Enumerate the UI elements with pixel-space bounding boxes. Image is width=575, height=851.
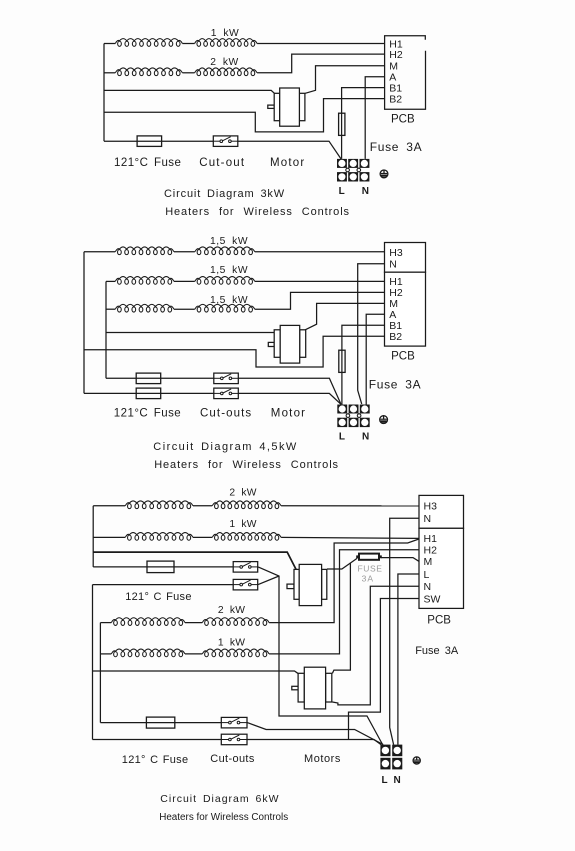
wire: 1kW between coils (d3 s1): [193, 536, 212, 538]
wire: 2kW coil to PCB pin H3 (d3): [281, 505, 419, 507]
thermal fuse 121C #1 (d2): [136, 373, 161, 384]
svg-text:1 kW: 1 kW: [211, 28, 239, 39]
wire: motor1 top-right to fuse 3A (d3): [327, 558, 357, 569]
svg-text:121° C Fuse: 121° C Fuse: [125, 591, 192, 603]
svg-text:FUSE: FUSE: [358, 564, 383, 574]
svg-text:2 kW: 2 kW: [229, 488, 256, 499]
wire: inner bus to 1kW coil (d3 s2): [100, 653, 111, 655]
wire: bus through 121C fuse to cut-out: [104, 140, 214, 142]
svg-text:H3: H3: [389, 247, 403, 259]
svg-text:Motor: Motor: [270, 157, 305, 169]
wire: cut-out1 output down and to terminal L (d3): [258, 567, 383, 745]
heater element 1kW (d3 sec1 row2 group A): [125, 533, 193, 541]
resistor/heater element 2kW (d1 row2, coil group A): [115, 68, 182, 76]
heater element 1kW (d3 sec1 row2 group B): [212, 533, 281, 541]
resistor/heater element 2kW (d1 row2, coil group B): [195, 68, 258, 76]
svg-text:L: L: [424, 569, 430, 581]
heater element 2kW (d3 sec2 row1 group A): [111, 618, 185, 626]
ground / protective earth (d1): [380, 170, 388, 178]
svg-text:1 kW: 1 kW: [229, 519, 256, 530]
wire: 1kW between coils (d3 s2): [185, 653, 202, 655]
heater element 2kW (d3 sec1 row1 group B): [212, 501, 281, 509]
svg-text:N: N: [394, 775, 401, 786]
ground / protective earth (d3): [413, 757, 420, 765]
cut-out switch (d1): [213, 136, 238, 147]
svg-text:Heaters for Wireless Controls: Heaters for Wireless Controls: [154, 459, 339, 471]
svg-text:L: L: [339, 186, 345, 197]
svg-text:1 kW: 1 kW: [218, 638, 245, 649]
wire: bus to row1 coil (d2): [84, 251, 115, 253]
wire: PCB pin A down to terminal N (d2): [366, 314, 384, 404]
cut-out switch #1 (d3 s1): [233, 562, 258, 573]
wire: bus to 1kW coil (d3 s1): [93, 536, 125, 538]
wire: inner bus to 2kW coil (d3 s2): [100, 622, 111, 624]
wire: bus through 121C fuse 2 to cut-out2 (d2): [84, 392, 215, 394]
wire: inner supply bus (d2): [105, 281, 107, 378]
wire: sec2 1kW coil up to PCB pin H2 (d3): [269, 550, 419, 654]
wire: cut-out2 to terminal L (d2): [237, 393, 341, 404]
cut-out switch #1 (d2): [214, 373, 239, 384]
svg-text:M: M: [424, 556, 433, 568]
svg-text:121° C Fuse: 121° C Fuse: [122, 754, 189, 766]
wire: inner bus through 121C fuse to cut-out1 (d3 s2): [100, 722, 221, 724]
wire: bus to 2kW coil (d3 s1): [93, 505, 125, 507]
svg-text:Circuit Diagram 6kW: Circuit Diagram 6kW: [160, 793, 279, 805]
svg-text:Circuit Diagram 3kW: Circuit Diagram 3kW: [164, 188, 285, 200]
wire: 1kW coil to PCB pin H1 (d3): [281, 537, 419, 538]
wire: PCB pin B1 down through Fuse 3A to terminal L (d2): [342, 325, 385, 404]
svg-text:PCB: PCB: [427, 615, 451, 627]
wire: sec2 2kW coil up to PCB pin H1 (d3): [269, 539, 419, 623]
resistor/heater element 1kW (d1 row1, coil group B): [195, 39, 258, 47]
svg-text:H2: H2: [389, 49, 403, 61]
wire: bus to row2 coil (d2): [106, 280, 115, 282]
thermal fuse 121C #2 (d2): [136, 388, 161, 399]
cut-out switch #1 (d3 s2): [221, 717, 247, 728]
resistor/heater element 1kW (d1 row1, coil group A): [115, 39, 182, 47]
svg-text:Motors: Motors: [304, 753, 341, 765]
wire: PCB pin N down to terminal N (d2): [358, 264, 385, 404]
wire: lower outer supply bus (d3): [92, 585, 94, 740]
svg-text:1,5 kW: 1,5 kW: [210, 265, 248, 276]
wire: bus through 121C fuse 1 to cut-out1 (d2): [106, 377, 215, 379]
wire: 2kW coil up to PCB pin H2: [257, 54, 385, 73]
heater element 2kW (d3 sec1 row1 group A): [125, 501, 193, 509]
motor M1 (d1): [268, 88, 305, 126]
svg-text:121°C Fuse: 121°C Fuse: [114, 408, 181, 420]
svg-text:Heaters for Wireless Controls: Heaters for Wireless Controls: [165, 206, 350, 218]
svg-text:Cut-out: Cut-out: [199, 157, 245, 169]
wire: row3 between coils (d2): [174, 308, 195, 310]
svg-text:1,5 kW: 1,5 kW: [210, 295, 248, 306]
svg-text:Cut-outs: Cut-outs: [200, 408, 252, 420]
wire: bus to motor1 top-left (d3): [93, 552, 296, 570]
wire: bus to row3 coil (d2): [106, 308, 115, 310]
svg-text:N: N: [389, 259, 397, 271]
svg-text:Heaters for Wireless Controls: Heaters for Wireless Controls: [159, 812, 288, 823]
wire: PCB pin B1 down through Fuse 3A to terminal L: [342, 88, 385, 159]
wire: cut-out1 to terminal L (d2): [237, 378, 341, 404]
wire: PCB pin A down to terminal N: [365, 77, 384, 159]
wire: fuse 3A output to PCB pin M (d3): [381, 558, 419, 562]
wire: 2kW between coils (d3 s1): [193, 505, 212, 507]
svg-text:B2: B2: [389, 331, 402, 343]
svg-text:3A: 3A: [362, 574, 374, 584]
wire: bus under motor up to PCB pin B2 (d2): [84, 336, 385, 367]
heater element 1,5kW (d2 row3 group A): [115, 304, 174, 312]
wire: outer supply bus (d2): [83, 252, 85, 394]
heater element 1,5kW (d2 row3 group B): [195, 304, 255, 312]
wire: cut-out to terminal L: [237, 141, 341, 159]
wire: PCB pin L down to terminal N column (d3): [398, 574, 419, 745]
heater element 2kW (d3 sec2 row1 group B): [202, 618, 269, 626]
motor M1 (d3): [287, 564, 327, 605]
svg-text:L: L: [339, 432, 345, 443]
svg-text:2 kW: 2 kW: [210, 57, 238, 68]
svg-text:H2: H2: [424, 545, 438, 557]
cut-out switch #2 (d3 s2): [221, 734, 247, 745]
wire: outer bus to motor2 top-left (d3): [93, 671, 298, 673]
motor M2 (d3): [292, 667, 332, 709]
wire: bus through 121C fuse to cut-out1 (d3 s1): [93, 566, 233, 568]
svg-text:Cut-outs: Cut-outs: [210, 753, 255, 765]
svg-text:H3: H3: [424, 501, 438, 513]
thermal fuse 121C (d3 s2): [146, 717, 174, 728]
svg-text:2 kW: 2 kW: [218, 605, 245, 616]
heater element 1,5kW (d2 row2 group A): [115, 277, 174, 285]
wire: bus under motor up to PCB pin B2: [104, 99, 385, 132]
wire: bus to motor top-left (d2): [106, 332, 274, 334]
svg-text:PCB: PCB: [391, 113, 415, 125]
wire: lower bus to cut-out2 (d3 s1): [93, 584, 233, 586]
svg-text:H1: H1: [424, 533, 438, 545]
svg-text:Circuit Diagram 4,5kW: Circuit Diagram 4,5kW: [153, 441, 297, 453]
wire: 2kW between coils (d3 s2): [185, 622, 202, 624]
wire: sec2 cut-out2 output to terminal L (d3): [247, 740, 381, 745]
thermal fuse 121C (d1): [137, 136, 162, 147]
heater element 1kW (d3 sec2 row2 group A): [111, 649, 185, 657]
svg-text:SW: SW: [424, 593, 441, 605]
wire: cut-out2 output to junction (d3 s1): [258, 576, 279, 585]
wire: sec2 cut-out1 output to terminal L (d3): [247, 723, 383, 745]
svg-text:B2: B2: [389, 93, 402, 105]
svg-text:PCB: PCB: [391, 351, 415, 363]
wire: left supply bus (d1): [103, 44, 105, 142]
terminal block L/N (d2): [337, 405, 369, 428]
fuse F1 3A (d1, vertical): [339, 113, 345, 135]
heater element 1,5kW (d2 row1 group A): [115, 247, 174, 255]
wire: motor2 top-right up to fuse 3A junction (d3): [332, 563, 350, 674]
heater element 1,5kW (d2 row1 group B): [195, 247, 255, 255]
svg-text:N: N: [362, 186, 369, 197]
wire: row1 between coils (d2): [174, 251, 195, 253]
cut-out switch #2 (d3 s1): [233, 579, 258, 590]
wire: section1 supply bus (d3): [92, 506, 94, 567]
wire: section2 inner supply bus (d3): [99, 623, 101, 723]
wire: row3 coil up to PCB pin H2 (d2): [255, 292, 385, 309]
svg-text:Fuse 3A: Fuse 3A: [415, 645, 459, 657]
svg-text:N: N: [362, 432, 369, 443]
wire: PCB pin N(top) down to terminal N (d3): [390, 518, 419, 744]
fuse F1 3A (d2, vertical): [339, 350, 345, 372]
heater element 1kW (d3 sec2 row2 group B): [202, 649, 269, 657]
wire: PCB pin M down to motor top-right (d2): [305, 303, 384, 329]
thermal fuse 121C (d3 s1): [147, 561, 174, 573]
svg-text:121°C Fuse: 121°C Fuse: [114, 157, 181, 169]
ground / protective earth (d2): [380, 416, 388, 424]
wire: bus to 2kW coil: [104, 72, 115, 74]
svg-text:Fuse 3A: Fuse 3A: [370, 140, 423, 154]
wire: between 1kW coil groups: [182, 43, 194, 45]
svg-text:1,5 kW: 1,5 kW: [210, 236, 248, 247]
wire: PCB pin N down to motor2 bottom-right (d3): [332, 586, 419, 705]
heater element 1,5kW (d2 row2 group B): [195, 277, 255, 285]
PCB controller main box (d2): [385, 272, 426, 346]
terminal block L/N (d3): [380, 745, 402, 770]
wire: bus to 1kW coil: [104, 43, 115, 45]
PCB controller upper box H3/N (d2): [385, 243, 426, 273]
svg-text:N: N: [424, 513, 432, 525]
wire: 1kW coil to PCB pin H1: [257, 43, 385, 45]
svg-text:N: N: [424, 581, 432, 593]
fuse F2 3A small horizontal (d3): [356, 554, 382, 560]
terminal block L/N (d1): [337, 159, 369, 182]
motor M1 (d2): [268, 325, 305, 363]
wire: row2 between coils (d2): [174, 280, 195, 282]
wire: outer bus to cut-out2 (d3 s2): [93, 739, 222, 741]
svg-text:Fuse 3A: Fuse 3A: [369, 378, 422, 392]
svg-text:L: L: [382, 775, 388, 786]
PCB controller upper box H3/N (d3): [419, 495, 464, 528]
wire: between 2kW coil groups: [182, 72, 194, 74]
op-amp/PCB controller U1 (d1): [385, 36, 426, 110]
wire: PCB pin SW down to cut-out2 line (d3): [349, 599, 420, 740]
wire: row1 coil to PCB pin H3 (d2): [255, 251, 385, 253]
PCB controller main box (d3): [419, 528, 464, 608]
svg-text:Motor: Motor: [271, 408, 306, 420]
wire: PCB pin M down to motor top-right: [305, 66, 384, 94]
cut-out switch #2 (d2): [214, 388, 239, 399]
wire: row2 coil to PCB pin H1 (d2): [255, 280, 385, 282]
wire: bus to motor top-left: [104, 90, 274, 93]
